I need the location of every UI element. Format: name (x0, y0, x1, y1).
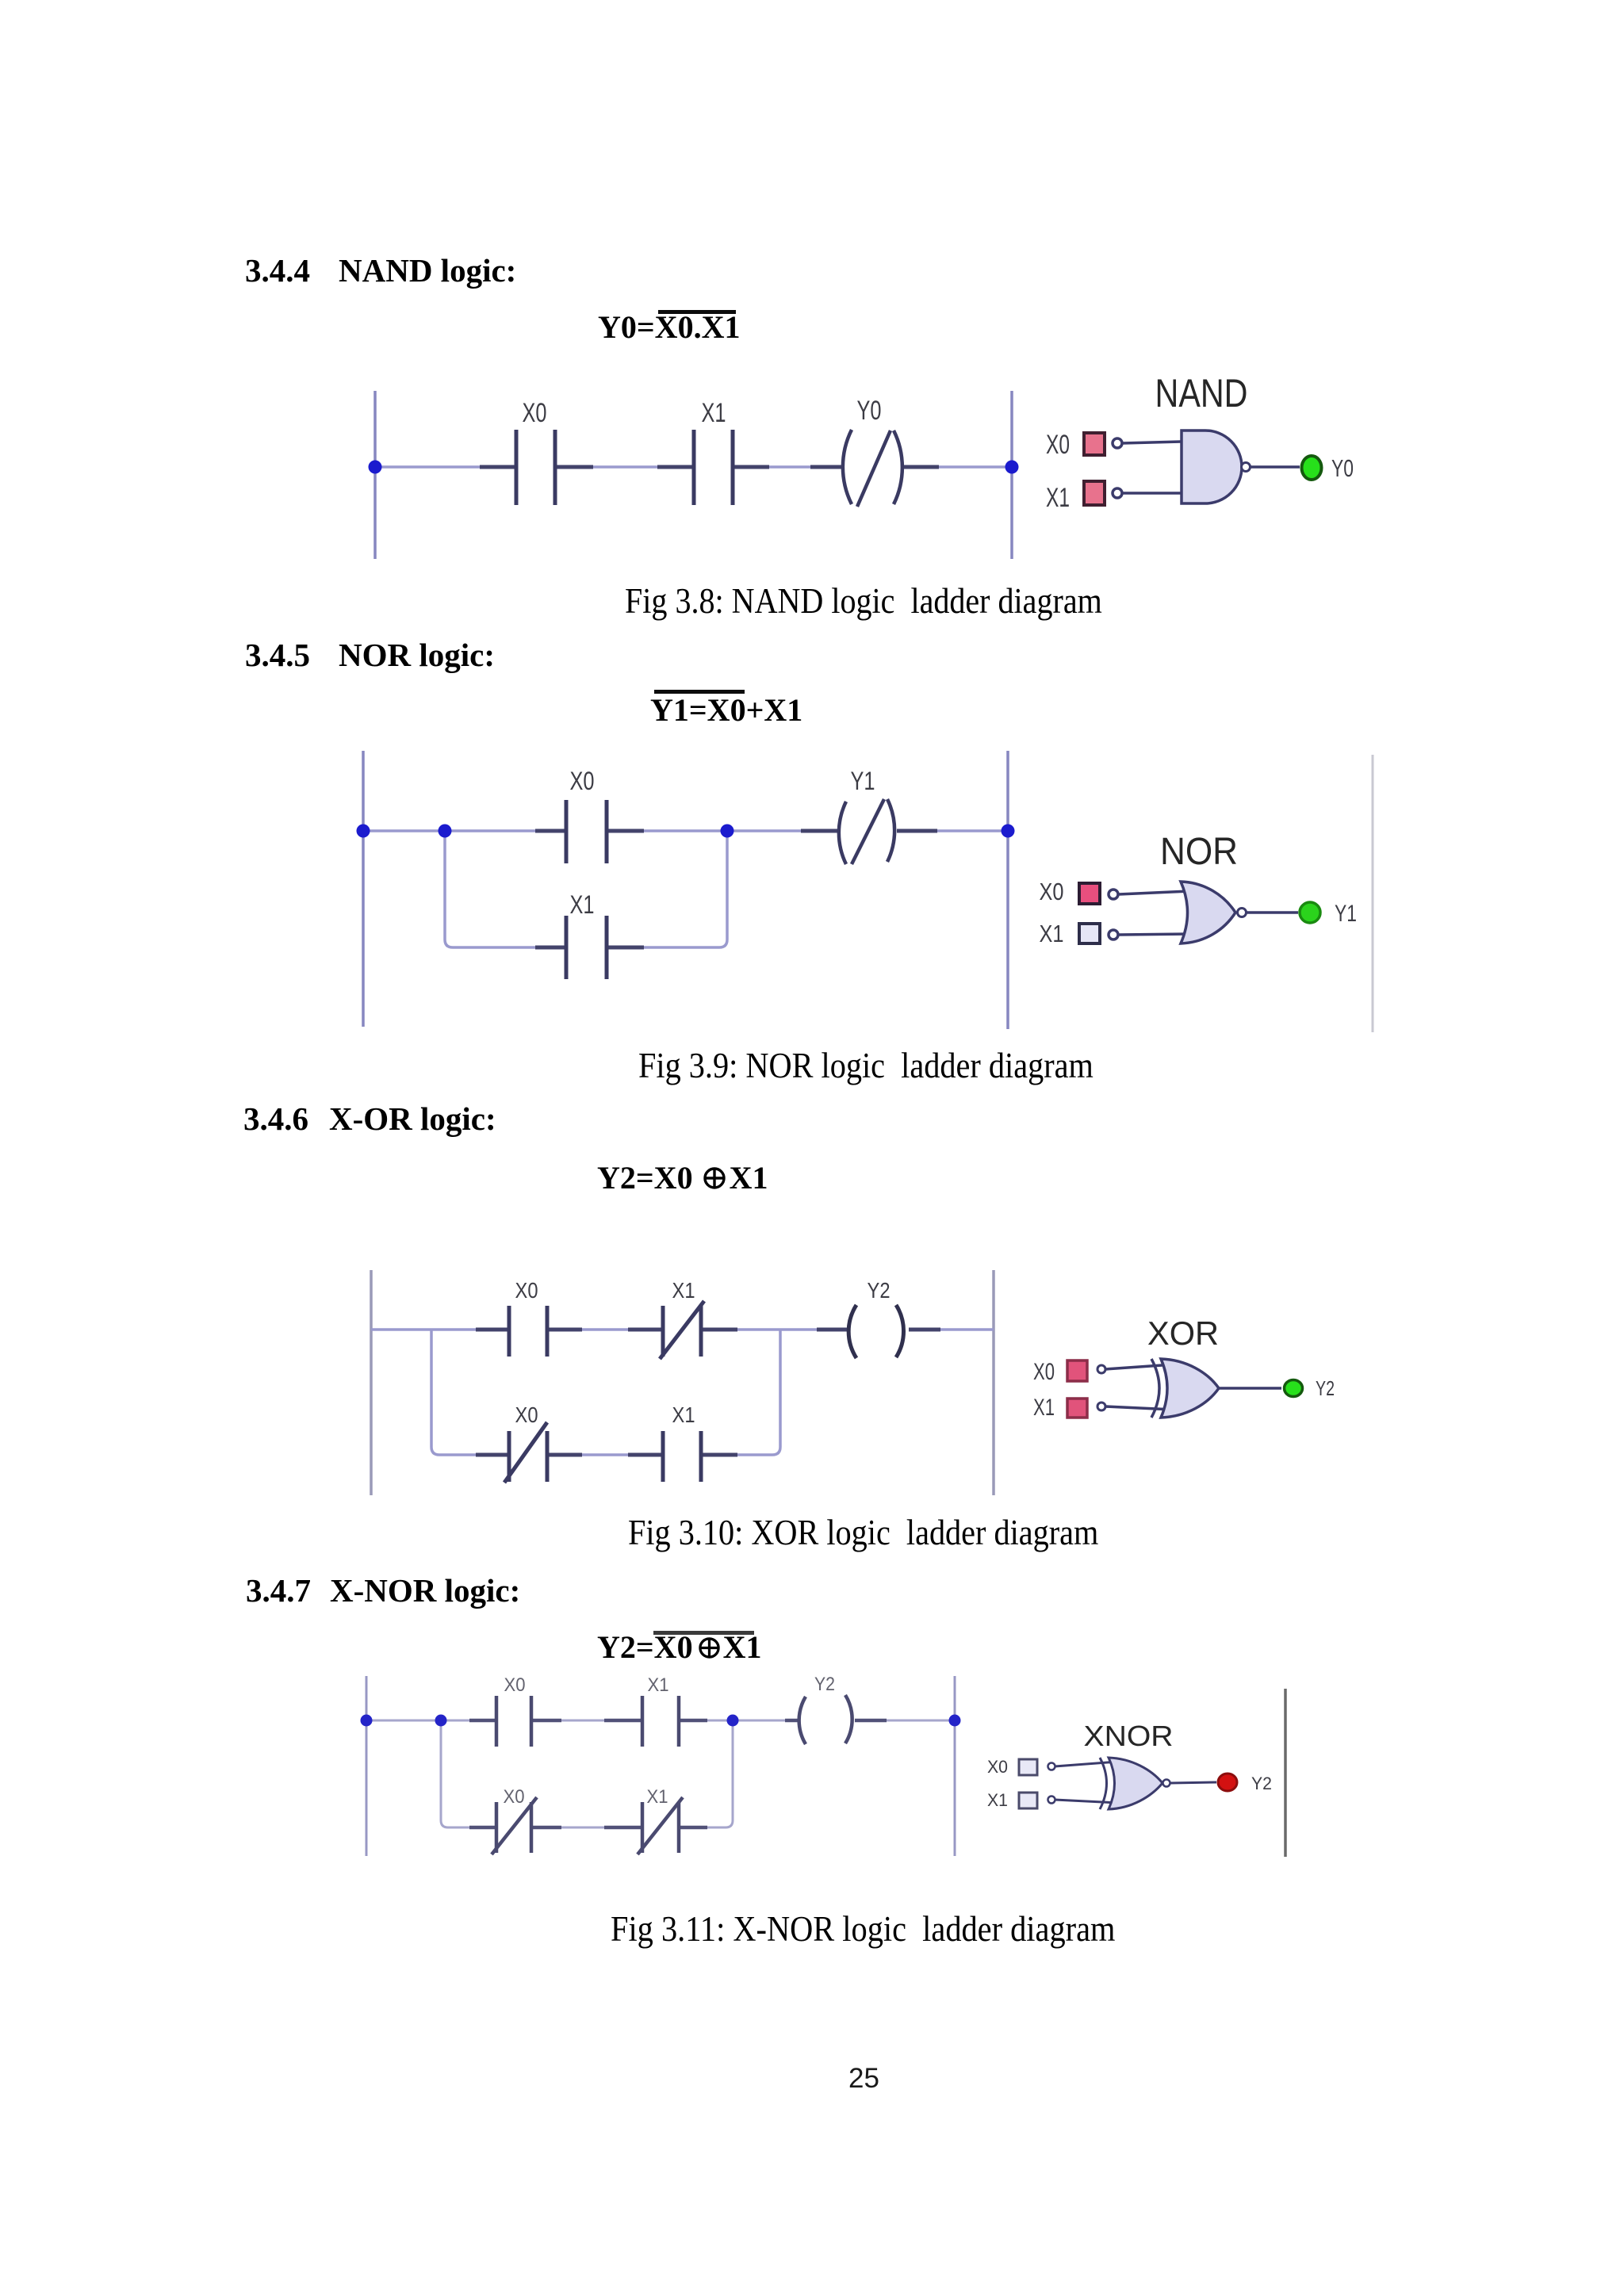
svg-text:Y1: Y1 (1335, 901, 1357, 927)
svg-text:Y0: Y0 (857, 396, 882, 426)
svg-text:XNOR: XNOR (1084, 1720, 1174, 1752)
svg-text:Y2: Y2 (868, 1278, 891, 1303)
svg-text:Y2: Y2 (1251, 1774, 1272, 1793)
svg-text:X1: X1 (672, 1402, 695, 1427)
svg-text:X1: X1 (1040, 920, 1064, 947)
svg-text:X0: X0 (504, 1786, 525, 1808)
svg-text:X0: X0 (570, 767, 595, 795)
svg-text:Y1: Y1 (851, 767, 875, 795)
svg-text:X1: X1 (987, 1790, 1008, 1810)
svg-text:X0: X0 (1033, 1359, 1055, 1385)
svg-text:X0: X0 (515, 1402, 538, 1427)
svg-text:X0: X0 (515, 1278, 538, 1303)
svg-text:X1: X1 (647, 1786, 668, 1808)
svg-text:X0: X0 (523, 398, 547, 428)
svg-text:X0: X0 (987, 1757, 1008, 1777)
svg-text:X0: X0 (1040, 878, 1064, 905)
svg-text:X0: X0 (504, 1674, 526, 1696)
svg-text:Y2: Y2 (814, 1674, 835, 1695)
svg-text:Y2: Y2 (1316, 1376, 1335, 1400)
svg-text:NOR: NOR (1160, 831, 1238, 873)
svg-text:X1: X1 (702, 398, 726, 428)
svg-text:X1: X1 (648, 1674, 669, 1696)
svg-text:Y0: Y0 (1331, 454, 1354, 482)
svg-text:X1: X1 (1046, 483, 1070, 513)
svg-text:X1: X1 (570, 890, 595, 919)
svg-text:XOR: XOR (1147, 1314, 1219, 1352)
svg-text:NAND: NAND (1155, 371, 1248, 415)
svg-text:X1: X1 (1033, 1395, 1055, 1421)
svg-text:X1: X1 (672, 1278, 695, 1303)
svg-text:X0: X0 (1046, 430, 1070, 460)
